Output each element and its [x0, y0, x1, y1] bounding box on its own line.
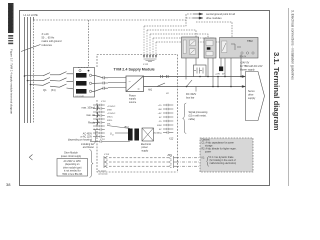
svg-text:power circuit supply: power circuit supply	[61, 155, 82, 158]
Bb1 contact on lower rail	[157, 83, 165, 87]
bleeder box crossed	[142, 128, 154, 141]
svg-text:supply: supply	[142, 150, 149, 152]
capacitor module Zw	[194, 58, 207, 77]
svg-text:=: =	[138, 87, 140, 91]
wires X2 to rectifier	[108, 78, 126, 88]
svg-text:0VDL: 0VDL	[107, 120, 113, 122]
svg-text:X 3/2: X 3/2	[143, 64, 149, 66]
connector X2 pins	[103, 76, 108, 89]
svg-text:supply: supply	[248, 97, 256, 100]
arrow callout to note box	[29, 155, 32, 161]
svg-text:Electronic: Electronic	[141, 143, 152, 146]
svg-text:mains soft ground: mains soft ground	[42, 40, 62, 43]
arrow ground point line2	[193, 17, 203, 19]
svg-text:R2: A-kdc bleeder for higher: R2: A-kdc bleeder for higher regen.	[202, 147, 237, 150]
wire L1	[24, 17, 26, 123]
riser B2 to L-	[212, 58, 214, 87]
svg-text:Options:: Options:	[202, 138, 211, 141]
svg-text:(depending on: (depending on	[65, 164, 80, 166]
svg-text:(depending on housing): (depending on housing)	[68, 140, 92, 142]
svg-text:drive modules: drive modules	[206, 17, 222, 20]
svg-text:+5V: +5V	[158, 113, 162, 115]
svg-text:for power: for power	[98, 171, 107, 173]
ground symbol	[144, 59, 157, 62]
svg-text:TVM 2.4 Supply Module: TVM 2.4 Supply Module	[114, 68, 155, 72]
breaker Q1 row 3	[30, 82, 73, 89]
svg-text:drive: drive	[248, 94, 254, 97]
connector X12 pin rows (module right edge)	[163, 104, 173, 134]
svg-text:0VM: 0VM	[157, 125, 162, 127]
svg-text:Ready: Ready	[88, 121, 96, 124]
svg-text:malfunctioning electronics): malfunctioning electronics)	[210, 162, 237, 165]
svg-text:50 ... 60 Hz: 50 ... 60 Hz	[42, 37, 56, 40]
module outline TVM (dashed)	[97, 55, 178, 68]
svg-text:central ground point for all: central ground point for all	[206, 13, 235, 16]
wire PE vertical	[33, 17, 35, 20]
svg-text:cable): cable)	[189, 118, 196, 121]
arrow to servo L-	[242, 85, 246, 88]
svg-text:X 1/2: X 1/2	[103, 154, 110, 156]
PE drop to X1	[88, 20, 90, 67]
option box TBM	[220, 38, 259, 59]
arrow ground point line1	[193, 13, 203, 15]
svg-text:L1 L2 L3 PE: L1 L2 L3 PE	[24, 13, 39, 17]
svg-text:Figure 3.7: TVM 2.4 supply mod: Figure 3.7: TVM 2.4 supply module termin…	[10, 49, 14, 115]
connector X1 power terminal block	[74, 68, 95, 98]
wires X1 to X2 pins	[92, 75, 103, 91]
wire L3	[30, 17, 32, 123]
svg-text:3 x AC: 3 x AC	[42, 33, 50, 36]
svg-text:bus bar: bus bar	[186, 97, 195, 100]
breaker Q1 row 2	[27, 78, 73, 82]
svg-text:Servo: Servo	[248, 90, 255, 93]
diagram outer frame	[20, 11, 270, 186]
svg-text:X 10: X 10	[100, 101, 106, 103]
DC bus label	[195, 87, 197, 92]
svg-text:+24V: +24V	[215, 74, 221, 76]
terminal +24VDC block	[220, 58, 222, 67]
svg-text:reference: reference	[42, 44, 53, 47]
X2 pin pair on rail	[161, 75, 169, 78]
rectifier power supply box	[126, 76, 144, 92]
svg-text:is not needed for: is not needed for	[64, 170, 81, 173]
svg-text:TDM 1 from BN 236: TDM 1 from BN 236	[62, 173, 83, 176]
svg-text:(15 m with resist.: (15 m with resist.	[189, 115, 207, 118]
svg-text:K1:: K1:	[202, 158, 206, 160]
svg-text:Signal processing: Signal processing	[189, 111, 209, 114]
svg-text:0VDC: 0VDC	[107, 117, 113, 119]
svg-text:24V 0V: 24V 0V	[240, 56, 247, 58]
leader line across mains wires	[21, 45, 41, 52]
svg-text:blower supply: blower supply	[240, 69, 255, 72]
riser B to L+	[207, 58, 209, 77]
svg-text:AC 230V or 115V: AC 230V or 115V	[64, 160, 82, 163]
svg-text:0M: 0M	[158, 109, 161, 111]
svg-text:shielding: shielding	[153, 133, 162, 135]
option relay box K1	[182, 37, 199, 58]
dashed signal wires to ZKS	[109, 158, 170, 166]
internal ground arrows	[143, 26, 157, 58]
option box B bleeder	[204, 38, 216, 58]
svg-text:drive module type): drive module type)	[63, 166, 82, 169]
svg-text:Ab1: Ab1	[147, 89, 153, 92]
far right chapter header (rotated) + rule	[288, 8, 290, 186]
svg-text:X12: X12	[168, 138, 174, 141]
capacitor bank C	[128, 129, 133, 141]
svg-text:U1 V1 W1: U1 V1 W1	[76, 96, 85, 98]
riser K1 to L-	[185, 58, 187, 80]
svg-text:TBM: TBM	[247, 39, 252, 43]
dash-dot wires to options	[176, 158, 200, 166]
connector X3 pins (AC in)	[104, 156, 108, 168]
svg-text:+15VDC: +15VDC	[107, 106, 116, 108]
connector X10 pin rows (module left edge)	[93, 104, 105, 138]
svg-text:or AC 115V: or AC 115V	[80, 135, 92, 138]
svg-text:and blower: and blower	[83, 146, 94, 149]
riser rail-rail	[217, 77, 219, 87]
servo drive modules banner	[246, 72, 265, 121]
svg-text:0VM: 0VM	[107, 110, 112, 112]
top dashed ground bus network	[144, 20, 232, 42]
svg-text:Q1: Q1	[43, 88, 47, 92]
brace pins to note box	[90, 150, 94, 178]
svg-text:power: power	[205, 150, 211, 153]
svg-text:max. 100mA: max. 100mA	[82, 106, 96, 109]
wire L2	[27, 17, 29, 123]
svg-text:(K1): (K1)	[51, 89, 56, 92]
options note box	[200, 138, 253, 172]
breaker Q1 row 1	[24, 72, 73, 77]
riser TBM mid	[230, 58, 232, 87]
svg-text:power: power	[142, 146, 148, 149]
PE dashed bus to central ground point	[34, 14, 194, 20]
DC bus rail L+	[144, 76, 243, 78]
svg-text:connection: connection	[98, 172, 108, 175]
svg-text:D.C. bus dynamic brake: D.C. bus dynamic brake	[210, 156, 235, 159]
svg-text:including fan: including fan	[81, 144, 95, 146]
relay contact Bb1	[107, 126, 130, 129]
riser TBM left	[224, 58, 226, 77]
drive module supply note box	[57, 152, 88, 177]
riser TBM terminals	[240, 55, 242, 77]
svg-text:source: source	[129, 101, 137, 104]
svg-text:storage: storage	[205, 144, 213, 147]
DC bus rail L-	[144, 86, 243, 88]
svg-text:+15VDC: +15VDC	[107, 113, 116, 115]
svg-text:AC 400V: AC 400V	[83, 132, 93, 135]
svg-text:ZKS: ZKS	[167, 155, 173, 157]
svg-text:(for braking in the event of: (for braking in the event of	[210, 159, 237, 162]
svg-text:3. Electrical connections - in: 3. Electrical connections - installation…	[291, 10, 295, 80]
svg-text:Drive Module: Drive Module	[64, 152, 78, 155]
brace signal processing	[183, 103, 187, 134]
svg-text:max. 2A: max. 2A	[86, 114, 95, 117]
svg-text:C1: A-kdc capacitance for pow: C1: A-kdc capacitance for power	[202, 141, 235, 144]
svg-text:3.1. Terminal diagram: 3.1. Terminal diagram	[272, 52, 281, 131]
svg-text:38: 38	[6, 182, 11, 187]
arrow to servo L+	[242, 75, 246, 78]
left margin doc-code black bar	[8, 3, 14, 44]
